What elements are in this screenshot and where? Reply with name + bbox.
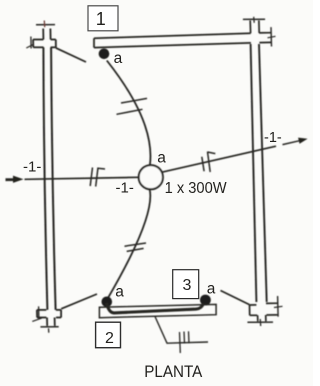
svg-text:3: 3	[182, 277, 191, 294]
wire: feed line to the right with arrow	[162, 138, 307, 173]
svg-text:a: a	[207, 281, 216, 298]
fluorescent tube thick line	[107, 303, 204, 313]
callout box 3	[173, 270, 199, 299]
lamp point bottom-right (dot a)	[200, 295, 211, 306]
wire: lower curve from circle to bottom-left lamp point	[107, 190, 151, 301]
svg-text:1: 1	[96, 9, 106, 29]
conductor count symbol below fixture	[180, 331, 190, 353]
svg-text:1 x 300W: 1 x 300W	[165, 180, 227, 197]
svg-text:a: a	[114, 50, 123, 67]
wall right: vertical double lines	[251, 44, 267, 302]
conduit-up symbol on right feed	[202, 152, 216, 172]
wire: upper curve from circle to top point a	[107, 61, 151, 166]
callout box 1	[88, 6, 118, 31]
wall left: vertical double lines	[43, 47, 55, 310]
callout box 2	[96, 322, 121, 348]
column top-right cross detail	[243, 17, 276, 47]
wall top: horizontal double lines	[94, 33, 251, 47]
wire: feed line to the left with arrow	[6, 176, 139, 183]
leader from bottom-left column to lamp point	[61, 294, 97, 309]
luminaire circle center	[139, 165, 163, 189]
svg-text:-1-: -1-	[264, 130, 282, 146]
svg-text:-1-: -1-	[23, 158, 41, 175]
leader from fixture to conductor symbol	[155, 317, 208, 344]
svg-text:-1-: -1-	[116, 180, 134, 197]
lamp point bottom-left (dot a)	[102, 297, 113, 308]
leader from bottom-right column to lamp point	[221, 291, 250, 305]
leader from top-left column to ceiling point	[56, 48, 86, 62]
conductor ticks on upper wire	[121, 98, 147, 103]
lamp point top (dot a)	[99, 49, 110, 60]
fluorescent fixture bar	[99, 304, 216, 317]
column top-left cross detail	[26, 21, 56, 49]
svg-text:PLANTA: PLANTA	[144, 362, 203, 381]
svg-text:a: a	[157, 149, 166, 166]
column bottom-right cross detail	[247, 296, 282, 326]
conductor ticks on lower wire	[125, 243, 147, 246]
column bottom-left cross detail	[32, 306, 61, 332]
svg-text:2: 2	[105, 330, 114, 347]
svg-text:a: a	[115, 284, 124, 301]
conduit-up symbol on left feed	[90, 168, 105, 187]
